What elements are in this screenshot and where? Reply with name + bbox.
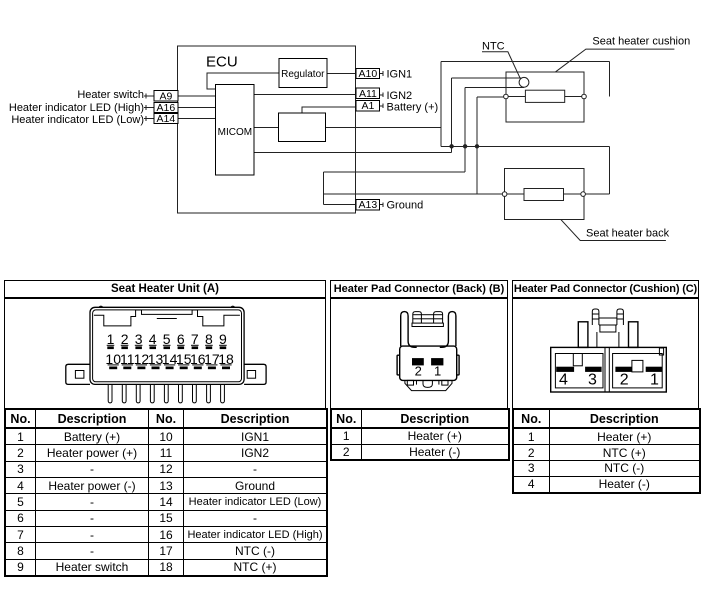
svg-text:NTC: NTC: [482, 40, 505, 52]
svg-text:2: 2: [121, 331, 129, 347]
svg-text:Regulator: Regulator: [281, 69, 325, 80]
svg-text:1: 1: [650, 372, 659, 389]
svg-text:4: 4: [149, 331, 157, 347]
svg-text:8: 8: [205, 331, 213, 347]
svg-text:A10: A10: [359, 68, 378, 80]
svg-text:A11: A11: [359, 88, 377, 100]
svg-text:Heater indicator LED (High): Heater indicator LED (High): [9, 102, 144, 114]
svg-text:1: 1: [434, 363, 441, 378]
svg-text:5: 5: [163, 331, 171, 347]
svg-text:Battery (+): Battery (+): [387, 102, 439, 114]
svg-text:A9: A9: [159, 91, 172, 103]
svg-text:A1: A1: [361, 100, 374, 112]
svg-text:3: 3: [135, 331, 143, 347]
svg-text:Heater switch: Heater switch: [77, 89, 144, 101]
svg-text:9: 9: [219, 331, 227, 347]
svg-text:4: 4: [559, 372, 568, 389]
svg-text:6: 6: [177, 331, 185, 347]
svg-text:1: 1: [107, 331, 115, 347]
svg-text:Ground: Ground: [387, 199, 424, 211]
svg-text:IGN1: IGN1: [387, 69, 413, 81]
svg-text:Seat heater back: Seat heater back: [586, 228, 670, 240]
svg-text:ECU: ECU: [206, 54, 238, 71]
svg-text:3: 3: [588, 372, 597, 389]
svg-text:MICOM: MICOM: [218, 127, 252, 138]
svg-text:IGN2: IGN2: [387, 90, 413, 102]
svg-text:2: 2: [415, 363, 422, 378]
svg-text:A13: A13: [359, 199, 378, 211]
svg-text:Seat heater cushion: Seat heater cushion: [592, 35, 690, 47]
svg-text:2: 2: [620, 372, 629, 389]
svg-text:Heater indicator LED (Low): Heater indicator LED (Low): [11, 114, 144, 126]
svg-text:7: 7: [191, 331, 199, 347]
svg-text:A14: A14: [157, 113, 176, 125]
